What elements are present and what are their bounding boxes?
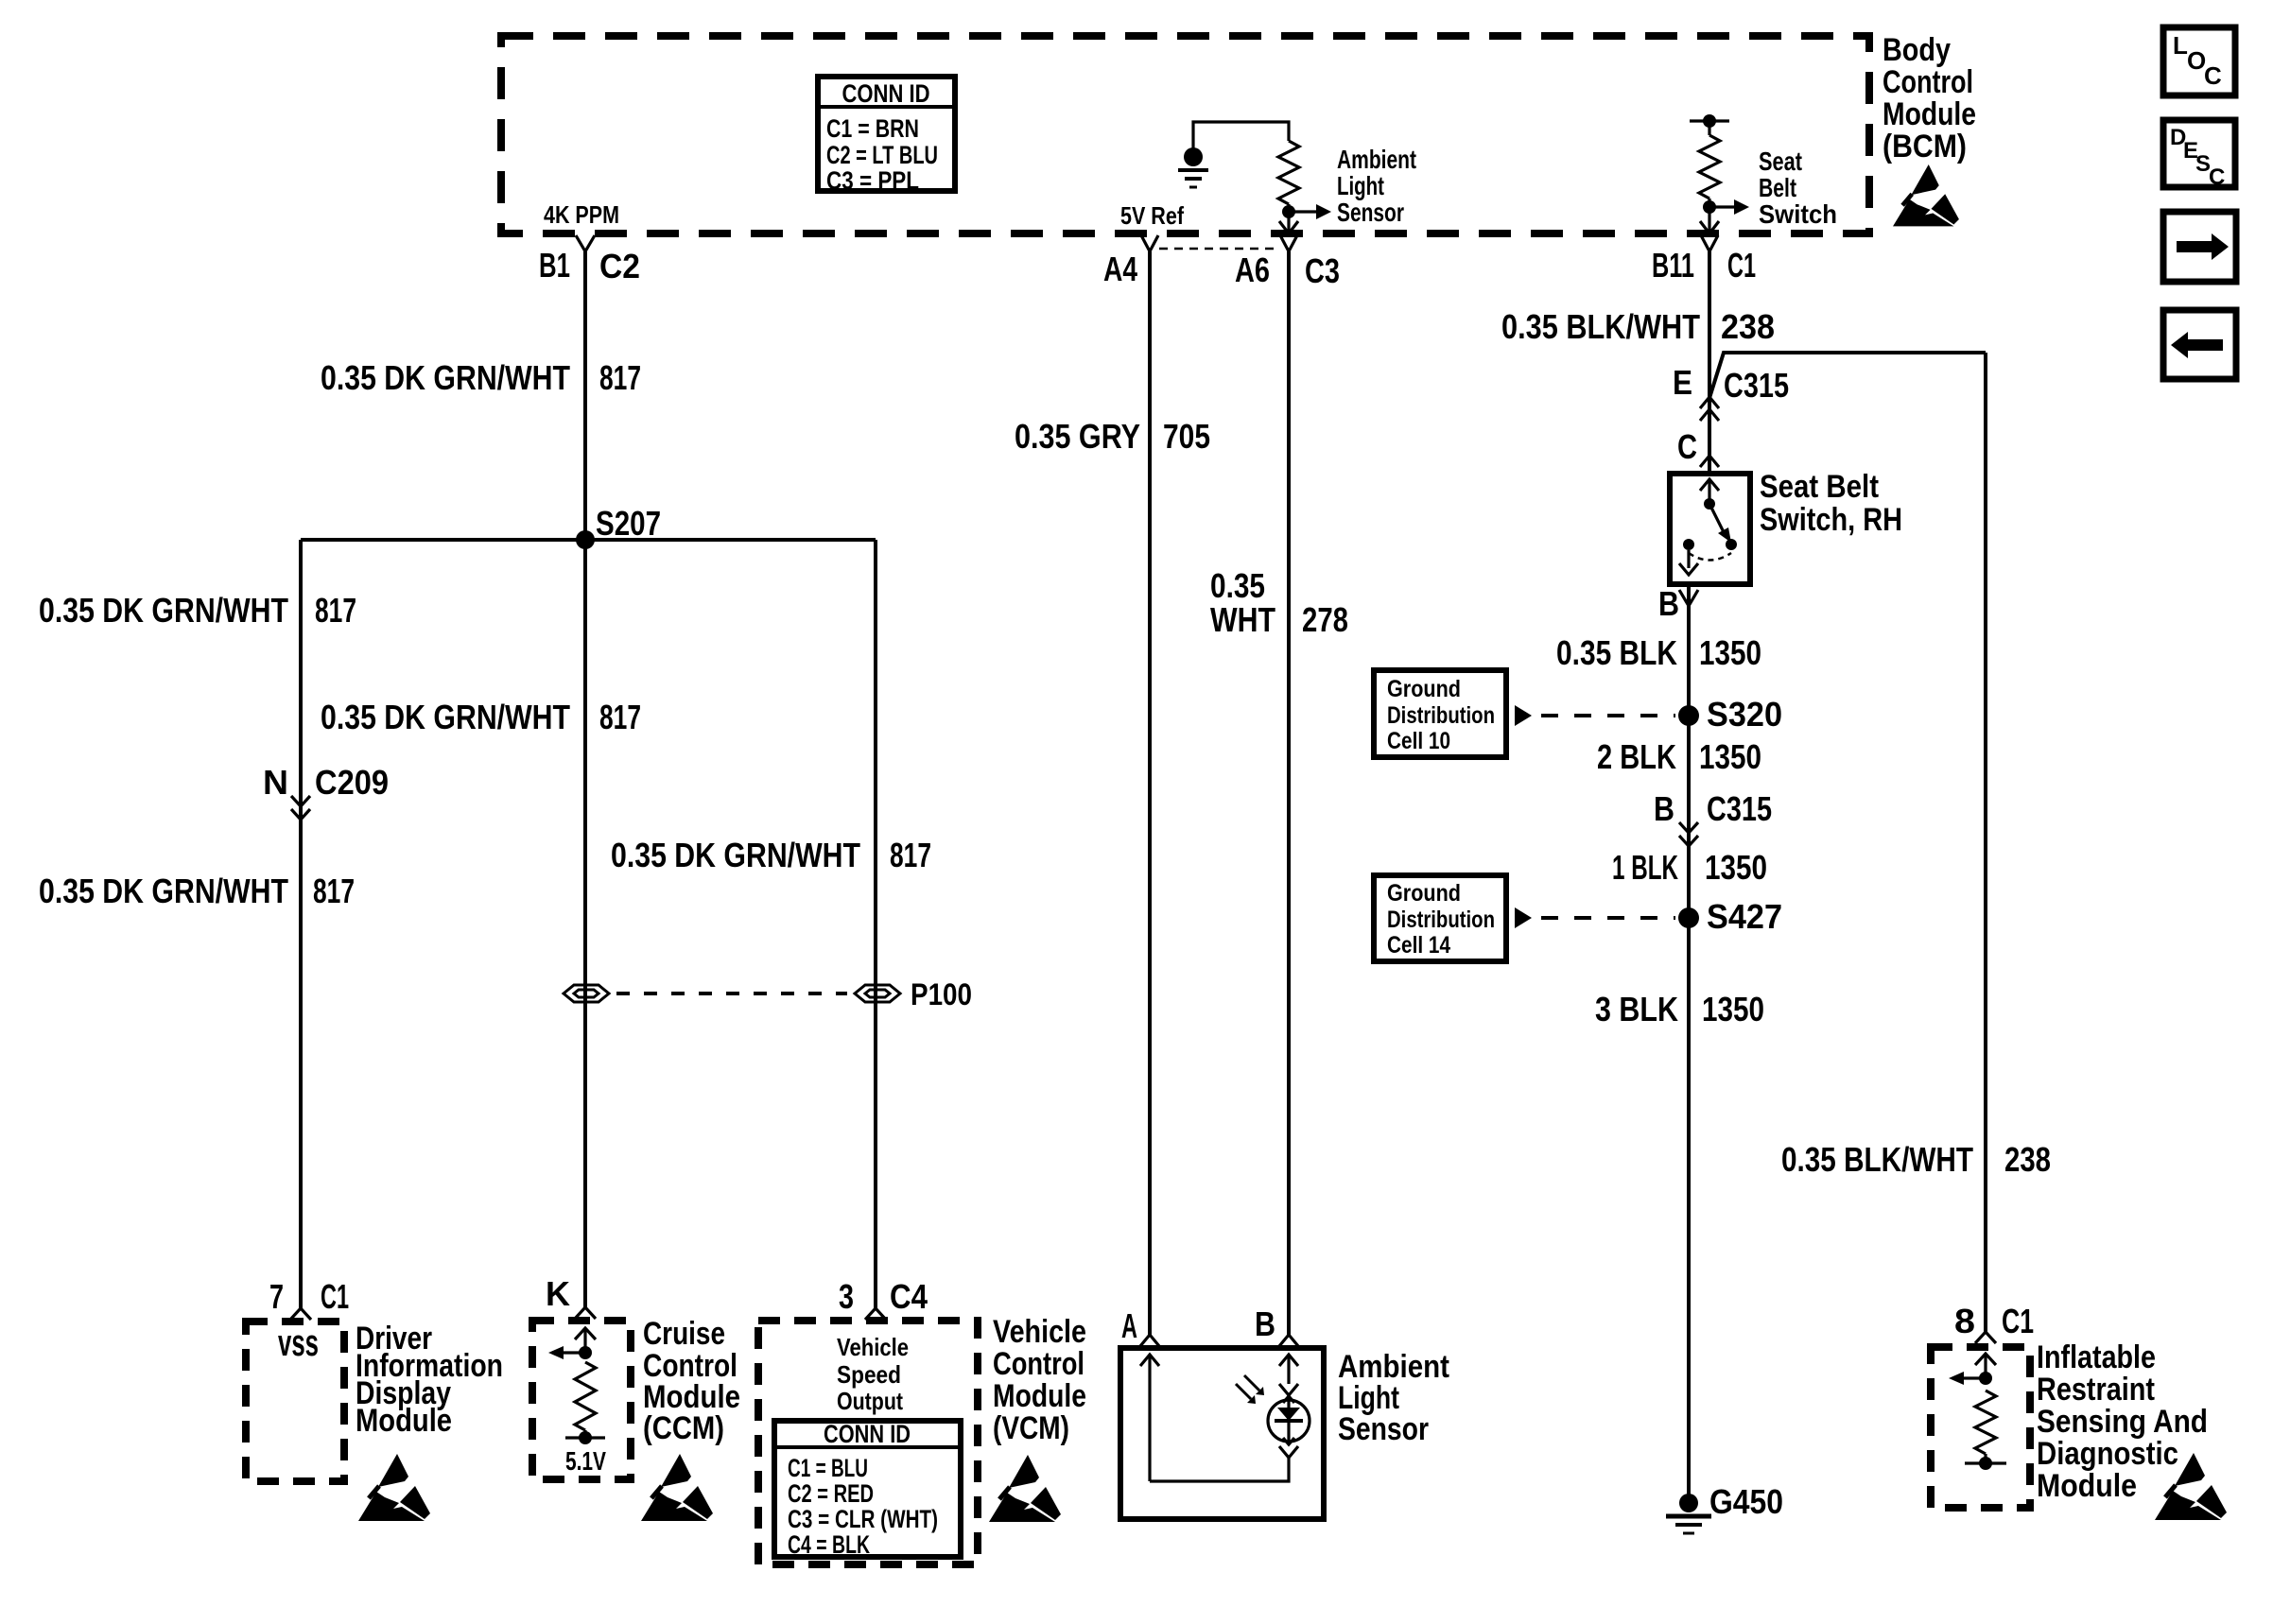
svg-text:Cell 14: Cell 14 xyxy=(1387,932,1450,959)
label Body Control Module (BCM) xyxy=(1883,32,1976,164)
svg-text:0.35 DK GRN/WHT: 0.35 DK GRN/WHT xyxy=(611,836,860,874)
label Ambient Light Sensor (bottom) xyxy=(1338,1349,1449,1447)
svg-text:C2 = LT BLU: C2 = LT BLU xyxy=(826,141,938,169)
svg-text:Belt: Belt xyxy=(1759,173,1796,202)
arrow up (sensor B inner) xyxy=(1287,1356,1290,1384)
svg-text:C1 = BRN: C1 = BRN xyxy=(826,114,919,143)
svg-text:Sensor: Sensor xyxy=(1338,1411,1429,1447)
svg-text:Module: Module xyxy=(356,1403,452,1439)
svg-text:S207: S207 xyxy=(596,504,661,543)
switch box Seat Belt Switch RH xyxy=(1670,474,1750,584)
wire S207 horizontal trunk xyxy=(301,538,876,542)
svg-text:B: B xyxy=(1255,1304,1275,1343)
Ground Distribution Cell 14 box xyxy=(1374,875,1506,961)
svg-text:0.35 DK GRN/WHT: 0.35 DK GRN/WHT xyxy=(39,591,288,630)
svg-text:0.35 BLK: 0.35 BLK xyxy=(1556,633,1677,672)
grommet P100 right xyxy=(855,985,900,1002)
svg-text:B11: B11 xyxy=(1652,246,1694,285)
node SDM xyxy=(1979,1372,1992,1385)
node 5.1V xyxy=(579,1431,592,1444)
switch contacts xyxy=(1708,480,1710,504)
svg-text:CONN ID: CONN ID xyxy=(824,1420,911,1448)
svg-text:(VCM): (VCM) xyxy=(993,1410,1069,1446)
node rail xyxy=(1979,1457,1992,1470)
svg-text:5V Ref: 5V Ref xyxy=(1120,201,1184,230)
connector B11/C1 at BCM xyxy=(1701,235,1718,251)
svg-text:Module: Module xyxy=(2037,1468,2137,1504)
svg-text:C3 = CLR (WHT): C3 = CLR (WHT) xyxy=(788,1505,938,1533)
svg-text:C1 = BLU: C1 = BLU xyxy=(788,1454,868,1482)
arrow up (CCM input) xyxy=(583,1329,586,1353)
ESD symbol (SDM) xyxy=(2155,1453,2227,1520)
svg-text:C: C xyxy=(1677,427,1697,466)
svg-text:C3: C3 xyxy=(1305,251,1340,290)
svg-text:B: B xyxy=(1658,584,1679,623)
svg-text:705: 705 xyxy=(1163,417,1210,456)
svg-text:K: K xyxy=(546,1274,570,1313)
svg-text:A6: A6 xyxy=(1235,251,1270,289)
svg-text:A: A xyxy=(1121,1306,1137,1345)
wire resistor to BCM edge xyxy=(1708,199,1710,233)
label Seat Belt Switch (in BCM) xyxy=(1759,147,1837,229)
svg-text:C3 = PPL: C3 = PPL xyxy=(826,166,919,195)
resistor (CCM pull-up) xyxy=(575,1362,596,1430)
svg-text:CONN ID: CONN ID xyxy=(842,79,930,108)
svg-text:0.35: 0.35 xyxy=(1210,566,1265,605)
svg-text:Seat Belt: Seat Belt xyxy=(1760,469,1879,505)
svg-text:S427: S427 xyxy=(1707,897,1782,936)
dashed pass-through P100 xyxy=(616,992,847,995)
connector B below switch xyxy=(1679,590,1698,606)
svg-text:0.35 GRY: 0.35 GRY xyxy=(1015,417,1140,456)
ESD symbol (CCM) xyxy=(641,1454,713,1521)
svg-text:Ground: Ground xyxy=(1387,880,1461,907)
arrow left (CCM signal) xyxy=(564,1351,585,1354)
node (seat belt switch signal) xyxy=(1703,200,1716,214)
svg-text:L: L xyxy=(2173,31,2188,60)
chevron above photodiode xyxy=(1279,1384,1298,1395)
svg-text:Module: Module xyxy=(1883,96,1976,132)
module box Inflatable Restraint SDM (dashed) xyxy=(1931,1347,2030,1508)
resistor (ambient light sensor, in BCM) xyxy=(1278,141,1299,204)
arrowhead down at BCM edge (seat belt) xyxy=(1700,221,1719,233)
label Cruise Control Module (CCM) xyxy=(643,1316,740,1446)
module box Cruise Control Module (dashed) xyxy=(532,1321,631,1479)
svg-text:C: C xyxy=(2209,164,2225,190)
svg-text:8: 8 xyxy=(1954,1302,1975,1340)
splice S427 xyxy=(1678,907,1699,928)
svg-text:C315: C315 xyxy=(1707,789,1772,828)
svg-text:Control: Control xyxy=(993,1346,1084,1382)
DESC box xyxy=(2163,120,2235,190)
svg-text:Inflatable: Inflatable xyxy=(2037,1339,2156,1375)
wire photodiode down and around to A xyxy=(1150,1458,1289,1481)
wire A4 down to sensor xyxy=(1148,251,1152,1335)
resistor (seat belt switch, in BCM) xyxy=(1699,135,1720,199)
wire resistor to 5.1V xyxy=(583,1430,586,1438)
svg-text:Light: Light xyxy=(1337,171,1384,200)
ground (inside BCM) xyxy=(1178,147,1208,187)
left arrow box xyxy=(2163,310,2236,379)
svg-text:Ambient: Ambient xyxy=(1337,145,1416,174)
svg-text:WHT: WHT xyxy=(1210,600,1275,639)
wire ground to ambient resistor xyxy=(1193,122,1289,148)
grommet P100 left xyxy=(564,985,609,1002)
ESD symbol (Driver module) xyxy=(358,1454,430,1521)
svg-text:817: 817 xyxy=(599,698,641,736)
svg-text:Sensing And: Sensing And xyxy=(2037,1404,2208,1440)
svg-text:S320: S320 xyxy=(1707,695,1782,734)
svg-text:Cruise: Cruise xyxy=(643,1316,725,1352)
svg-text:C315: C315 xyxy=(1724,366,1789,405)
svg-text:0.35 DK GRN/WHT: 0.35 DK GRN/WHT xyxy=(39,872,288,910)
svg-text:238: 238 xyxy=(1721,307,1775,346)
svg-text:P100: P100 xyxy=(911,977,972,1011)
svg-text:Diagnostic: Diagnostic xyxy=(2037,1436,2178,1472)
arrow + dashed reference to S427 xyxy=(1515,907,1532,928)
svg-text:278: 278 xyxy=(1302,600,1348,639)
svg-text:(CCM): (CCM) xyxy=(643,1410,724,1446)
light arrows xyxy=(1236,1375,1259,1399)
svg-text:(BCM): (BCM) xyxy=(1883,129,1967,164)
right arrow box xyxy=(2163,212,2236,282)
module box Vehicle Control Module (dashed) xyxy=(758,1321,978,1564)
svg-text:817: 817 xyxy=(890,836,931,874)
svg-text:E: E xyxy=(1673,363,1692,402)
photodiode bar and triangle xyxy=(1275,1419,1303,1423)
arrow up (SDM input) xyxy=(1984,1355,1987,1378)
CONN ID table (VCM) xyxy=(774,1420,961,1559)
node CCM xyxy=(579,1346,592,1359)
svg-text:Vehicle: Vehicle xyxy=(993,1314,1086,1350)
svg-text:Control: Control xyxy=(1883,64,1973,100)
wire to far right (238 branch) xyxy=(1709,353,1986,398)
svg-text:7: 7 xyxy=(269,1277,284,1316)
svg-text:B: B xyxy=(1654,789,1674,828)
svg-text:C2: C2 xyxy=(599,247,640,285)
svg-text:4K PPM: 4K PPM xyxy=(544,200,619,229)
svg-text:Switch, RH: Switch, RH xyxy=(1760,502,1902,538)
svg-text:C209: C209 xyxy=(315,763,389,802)
svg-text:0.35 DK GRN/WHT: 0.35 DK GRN/WHT xyxy=(321,698,570,736)
svg-text:Switch: Switch xyxy=(1759,199,1837,229)
wire B1/C2 down to CCM (middle) xyxy=(583,251,587,1308)
svg-text:1350: 1350 xyxy=(1699,633,1761,672)
ESD symbol (BCM) xyxy=(1893,164,1959,226)
svg-text:C2 = RED: C2 = RED xyxy=(788,1479,874,1508)
component box Ambient Light Sensor xyxy=(1120,1348,1324,1519)
label Vehicle Control Module (VCM) xyxy=(993,1314,1086,1446)
svg-text:817: 817 xyxy=(599,358,641,397)
svg-text:Output: Output xyxy=(837,1387,903,1415)
ESD symbol (VCM) xyxy=(989,1455,1061,1522)
svg-text:C4 = BLK: C4 = BLK xyxy=(788,1530,870,1559)
label Vehicle Speed Output xyxy=(837,1333,909,1415)
svg-text:2 BLK: 2 BLK xyxy=(1597,737,1676,776)
wire B11 down to switch xyxy=(1708,251,1711,474)
arrow left (SDM signal) xyxy=(1964,1376,1986,1379)
svg-text:1350: 1350 xyxy=(1699,737,1761,776)
node (ambient sensor output) xyxy=(1282,205,1295,218)
photodiode circle xyxy=(1268,1400,1310,1442)
svg-text:1350: 1350 xyxy=(1702,990,1764,1028)
label Ambient Light Sensor (in BCM) xyxy=(1337,145,1416,227)
seat belt switch pullup (in BCM) xyxy=(1690,114,1729,135)
svg-text:G450: G450 xyxy=(1709,1482,1783,1521)
svg-text:1350: 1350 xyxy=(1705,848,1767,887)
ground G450 xyxy=(1679,1494,1698,1512)
svg-text:Module: Module xyxy=(993,1378,1086,1414)
wire resistor to BCM edge xyxy=(1287,204,1290,233)
svg-text:817: 817 xyxy=(313,872,355,910)
svg-text:3 BLK: 3 BLK xyxy=(1595,990,1678,1028)
svg-text:C4: C4 xyxy=(890,1277,928,1316)
label Driver Information Display Module xyxy=(356,1321,503,1439)
svg-text:Vehicle: Vehicle xyxy=(837,1333,909,1361)
LOC box xyxy=(2163,27,2235,95)
svg-text:vss: vss xyxy=(278,1322,319,1364)
wire switch to G450 xyxy=(1687,584,1691,1503)
wire left branch down to Driver Info module xyxy=(299,540,303,1308)
svg-text:N: N xyxy=(263,763,288,802)
arrow + dashed reference to S320 xyxy=(1515,705,1532,726)
resistor (SDM) xyxy=(1975,1391,1996,1454)
svg-text:Distribution: Distribution xyxy=(1387,702,1495,729)
svg-text:B1: B1 xyxy=(539,246,570,285)
connector A6/C3 at BCM xyxy=(1280,235,1297,251)
svg-text:C1: C1 xyxy=(321,1277,349,1316)
arrow right (ambient sensor signal) xyxy=(1289,210,1316,213)
svg-text:0.35 BLK/WHT: 0.35 BLK/WHT xyxy=(1781,1140,1973,1179)
svg-text:C1: C1 xyxy=(2002,1302,2034,1340)
wire right branch down to VCM xyxy=(874,540,877,1310)
connector A4 at BCM xyxy=(1141,235,1158,251)
label Inflatable Restraint Sensing And Diagnostic Module xyxy=(2037,1339,2208,1504)
connector B1/C2 at BCM xyxy=(576,235,595,251)
arrow up (sensor A inner) xyxy=(1148,1356,1151,1481)
module box Driver Information Display Module (dashed) xyxy=(246,1322,344,1481)
label Seat Belt Switch, RH xyxy=(1760,469,1902,538)
arrowhead down at BCM edge (ambient) xyxy=(1279,221,1298,233)
svg-text:Restraint: Restraint xyxy=(2037,1372,2155,1408)
svg-text:Cell 10: Cell 10 xyxy=(1387,728,1450,754)
svg-text:Sensor: Sensor xyxy=(1337,198,1404,227)
svg-text:238: 238 xyxy=(2004,1140,2051,1179)
svg-text:3: 3 xyxy=(839,1277,854,1316)
arrow right (seat belt switch signal) xyxy=(1709,205,1734,208)
svg-text:Ground: Ground xyxy=(1387,676,1461,702)
wire A6 down to sensor xyxy=(1287,251,1291,1335)
svg-text:Body: Body xyxy=(1883,32,1951,68)
svg-text:0.35 BLK/WHT: 0.35 BLK/WHT xyxy=(1501,307,1700,346)
chevron below photodiode xyxy=(1279,1446,1298,1458)
svg-text:Distribution: Distribution xyxy=(1387,907,1495,933)
svg-text:5.1V: 5.1V xyxy=(565,1446,606,1476)
Ground Distribution Cell 10 box xyxy=(1374,670,1506,757)
svg-text:0.35 DK GRN/WHT: 0.35 DK GRN/WHT xyxy=(321,358,570,397)
dashed connector link A4-A6 xyxy=(1159,248,1279,251)
svg-text:817: 817 xyxy=(315,591,356,630)
svg-text:Speed: Speed xyxy=(837,1360,901,1389)
svg-text:A4: A4 xyxy=(1103,250,1137,288)
wire far right down to SDM xyxy=(1984,353,1987,1332)
wire resistor to rail xyxy=(1984,1454,1987,1463)
module box BCM (dashed) xyxy=(501,36,1869,233)
CONN ID table (BCM) xyxy=(818,77,955,195)
splice S207 xyxy=(576,530,595,549)
svg-text:Seat: Seat xyxy=(1759,147,1802,176)
svg-text:1 BLK: 1 BLK xyxy=(1612,848,1678,887)
svg-text:C1: C1 xyxy=(1727,246,1756,285)
svg-text:C: C xyxy=(2204,61,2222,90)
splice S320 xyxy=(1678,705,1699,726)
